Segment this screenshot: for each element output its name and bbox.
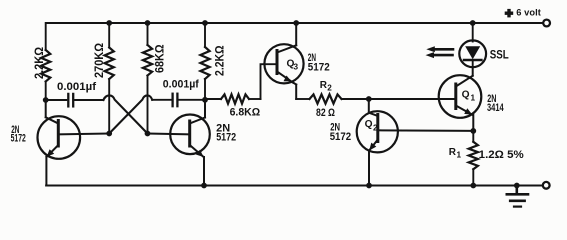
node left collector / C1 bbox=[43, 97, 49, 103]
LED light arrow lower bbox=[433, 54, 453, 57]
LED cathode bar bbox=[464, 59, 481, 62]
svg-text:3: 3 bbox=[294, 62, 299, 71]
Q1 emitter arrow bbox=[464, 108, 472, 115]
transistor Q3 2N5172 bbox=[264, 44, 303, 83]
wire Q2 emitter bbox=[369, 140, 378, 151]
resistor R2 82 Ohm bbox=[296, 98, 309, 100]
wire C2 hop over 68K and diagonal to left base bbox=[109, 95, 152, 133]
LED triangle bbox=[465, 46, 480, 59]
wire LED cathode bbox=[472, 60, 474, 67]
Q3 emitter arrow bbox=[284, 76, 292, 82]
QL emitter arrow bbox=[47, 149, 55, 157]
resistor 2.2K (left) bbox=[45, 23, 47, 50]
node right base junction bbox=[145, 131, 151, 137]
svg-text:Q: Q bbox=[365, 119, 373, 130]
svg-text:2: 2 bbox=[373, 123, 378, 132]
wire QR emitter bbox=[190, 145, 204, 157]
node left base junction bbox=[106, 131, 112, 137]
wire QL base bbox=[58, 133, 109, 136]
transistor QR 2N5172 (right multivibrator) bbox=[170, 115, 210, 155]
capacitor C2 plates bbox=[176, 94, 178, 107]
svg-text:82 Ω: 82 Ω bbox=[316, 107, 335, 119]
Q1 base bar bbox=[454, 84, 457, 109]
Q3 base bar bbox=[276, 51, 279, 74]
wire 6.8K up to Q3 base bbox=[261, 64, 278, 99]
node 68K top bbox=[145, 20, 151, 26]
wire top supply rail bbox=[46, 22, 543, 24]
LED light arrow upper bbox=[434, 48, 453, 51]
svg-text:5172: 5172 bbox=[216, 132, 236, 144]
wire QR base bbox=[148, 133, 190, 136]
QR base bar bbox=[188, 121, 191, 146]
resistor 270K bbox=[108, 23, 110, 48]
svg-text:1: 1 bbox=[471, 94, 476, 103]
svg-text:2.2KΩ: 2.2KΩ bbox=[32, 47, 46, 79]
svg-text:1: 1 bbox=[457, 151, 462, 160]
wire R2 node to Q1 base bbox=[369, 98, 456, 100]
wire QR collector bbox=[204, 100, 206, 118]
svg-text:5172: 5172 bbox=[308, 62, 330, 74]
transistor Q1 2N3414 bbox=[439, 75, 482, 118]
LED SSL bbox=[459, 40, 486, 67]
node Q2 emitter at ground rail bbox=[366, 183, 372, 189]
node R2 / Q2 base / Q1 base bbox=[366, 96, 372, 102]
wire LED anode from rail bbox=[472, 23, 474, 42]
wire Q2 collector bbox=[378, 129, 474, 132]
svg-text:5172: 5172 bbox=[11, 133, 26, 145]
wire Q3 collector bbox=[277, 45, 296, 52]
resistor 2.2K (second) bbox=[204, 23, 206, 47]
wire Q1 emitter bbox=[456, 106, 473, 115]
resistor 68K bbox=[147, 23, 149, 45]
node Q3 collector at rail bbox=[293, 20, 299, 26]
svg-text:SSL: SSL bbox=[490, 50, 509, 62]
svg-text:2.2KΩ: 2.2KΩ bbox=[213, 45, 227, 76]
node LED at rail bbox=[470, 20, 476, 26]
capacitor C1 0.001uF wires bbox=[46, 99, 67, 101]
svg-text:0.001µf: 0.001µf bbox=[163, 78, 199, 90]
terminal ground (open circle) bbox=[543, 182, 550, 189]
capacitor C2 0.001uF wires bbox=[179, 99, 205, 101]
svg-text:6 volt: 6 volt bbox=[516, 7, 541, 17]
svg-text:5172: 5172 bbox=[330, 131, 351, 143]
svg-text:2: 2 bbox=[327, 84, 332, 93]
Q2 emitter arrow bbox=[369, 143, 376, 151]
QL base bar bbox=[57, 121, 60, 147]
wire Q2 base from node bbox=[368, 99, 370, 113]
ground symbol bbox=[507, 186, 528, 207]
svg-text:270KΩ: 270KΩ bbox=[92, 43, 106, 78]
Q2 base bar bbox=[376, 115, 379, 142]
QR emitter arrow bbox=[196, 150, 204, 157]
svg-text:3414: 3414 bbox=[487, 102, 504, 114]
resistor 6.8K bbox=[205, 98, 221, 100]
svg-text:1.2Ω 5%: 1.2Ω 5% bbox=[479, 149, 524, 161]
terminal +6 volt (open circle) bbox=[543, 20, 550, 27]
capacitor C1 plates bbox=[67, 94, 69, 107]
wire QL emitter bbox=[47, 145, 59, 157]
svg-text:68KΩ: 68KΩ bbox=[152, 44, 166, 73]
svg-text:0.001µf: 0.001µf bbox=[57, 81, 96, 93]
node Q1 emitter / Q2 collector / R1 bbox=[470, 128, 476, 134]
wire QL collector bbox=[45, 100, 47, 117]
node 2.2K second top bbox=[202, 20, 208, 26]
node right collector / C2 bbox=[202, 97, 208, 103]
transistor Q2 2N5172 bbox=[357, 111, 398, 152]
node R1 at ground rail bbox=[470, 183, 476, 189]
svg-text:6.8KΩ: 6.8KΩ bbox=[230, 107, 261, 119]
node QR emitter at ground rail bbox=[201, 183, 207, 189]
wire Q1 collector bbox=[456, 76, 473, 87]
label + 6 volt bbox=[505, 9, 514, 18]
svg-text:Q: Q bbox=[462, 89, 470, 100]
node ground junction bbox=[514, 183, 520, 189]
resistor R1 1.2 Ohm bbox=[472, 131, 474, 142]
transistor QL 2N5172 (left multivibrator) bbox=[38, 116, 81, 159]
wire bottom ground rail bbox=[46, 184, 543, 186]
wire C1 hop over 270K and diagonal to right base bbox=[103, 95, 147, 133]
node 270K top bbox=[106, 20, 112, 26]
wire Q3 emitter bbox=[277, 72, 293, 83]
